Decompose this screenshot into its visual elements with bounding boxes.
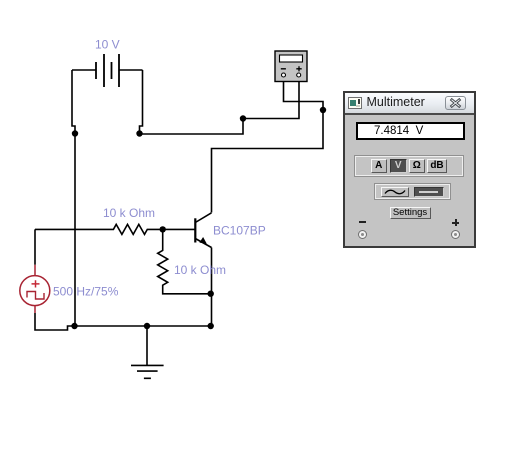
svg-text:10 k Ohm: 10 k Ohm [174, 263, 226, 277]
svg-text:500 Hz/75%: 500 Hz/75% [53, 285, 119, 299]
svg-text:10 k Ohm: 10 k Ohm [103, 206, 155, 220]
svg-text:10 V: 10 V [95, 38, 120, 52]
svg-text:BC107BP: BC107BP [213, 224, 266, 238]
